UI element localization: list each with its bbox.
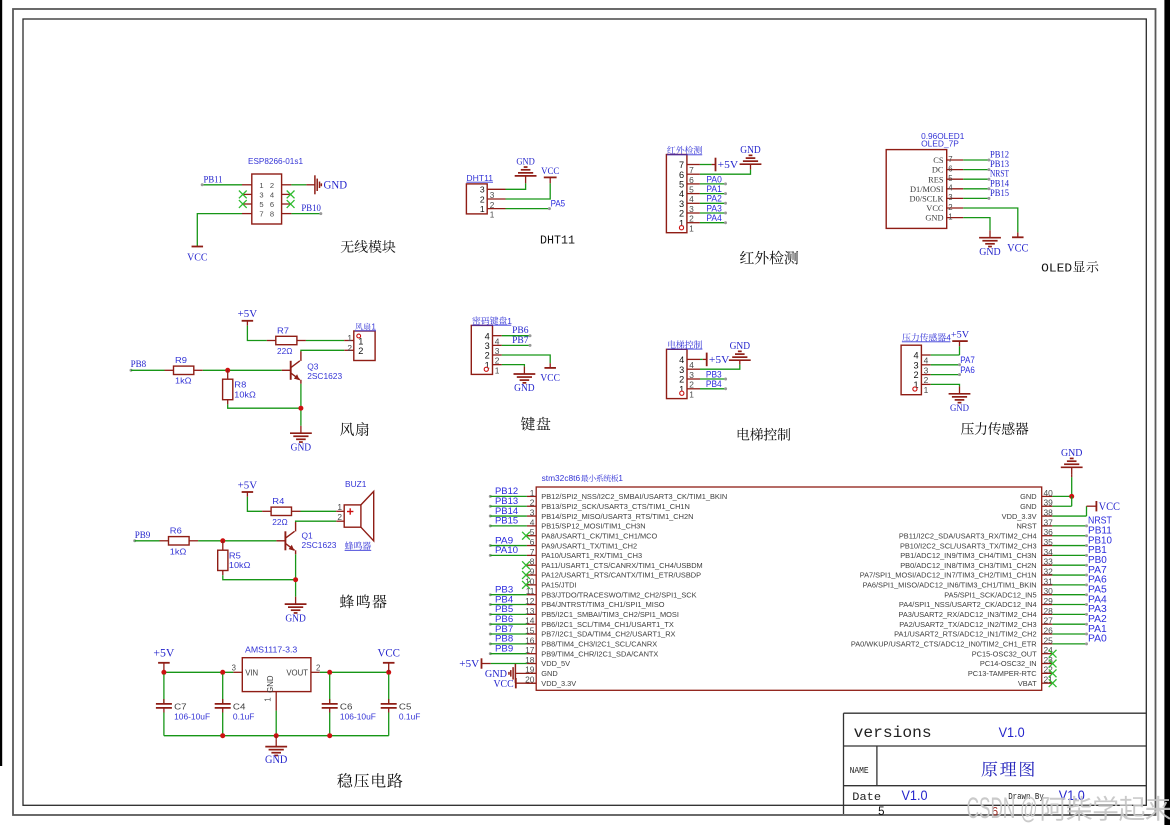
svg-text:R4: R4 xyxy=(272,496,284,506)
power VCC at ESP pin7 xyxy=(187,247,207,264)
wire stm32 pin39 to GND node xyxy=(1052,496,1071,506)
svg-text:GND: GND xyxy=(285,613,306,624)
wire R4 to buzzer pin1 xyxy=(301,510,337,512)
svg-text:GND: GND xyxy=(1061,447,1082,459)
svg-text:8: 8 xyxy=(270,210,274,219)
svg-text:PA12/USART1_RTS/CANTX/TIM1_ETR: PA12/USART1_RTS/CANTX/TIM1_ETR/USBDP xyxy=(541,571,701,580)
label 密码键盘1 blue xyxy=(472,316,512,326)
module title OLED显示 xyxy=(1041,261,1098,275)
svg-text:26: 26 xyxy=(1044,625,1054,635)
no-connect X stm32 pin22 xyxy=(1049,669,1057,677)
wire output rail xyxy=(320,671,389,673)
junction C6 bottom node xyxy=(327,733,332,738)
svg-text:PB8/TIM4_CH3/I2C1_SCL/CANRX: PB8/TIM4_CH3/I2C1_SCL/CANRX xyxy=(541,640,657,649)
svg-text:C6: C6 xyxy=(340,702,353,712)
ground GND at ESP pin2 xyxy=(306,175,347,194)
svg-text:2SC1623: 2SC1623 xyxy=(307,371,342,381)
power VCC stm32 pin38 xyxy=(1096,501,1120,513)
resistor R4 xyxy=(262,507,300,515)
svg-text:V1.0: V1.0 xyxy=(999,725,1025,740)
power VCC at DHT pin2 xyxy=(541,166,559,184)
svg-text:4: 4 xyxy=(485,331,490,341)
svg-text:VDD_3.3V: VDD_3.3V xyxy=(1002,512,1037,521)
svg-text:PB1/ADC12_IN9/TIM3_CH4/TIM1_CH: PB1/ADC12_IN9/TIM3_CH4/TIM1_CH3N xyxy=(900,551,1036,560)
svg-text:GND: GND xyxy=(516,157,535,167)
svg-text:PB9: PB9 xyxy=(135,530,151,541)
svg-text:GND: GND xyxy=(730,341,751,352)
wire stm32 pin40 to GND xyxy=(1052,475,1071,497)
component 密码键盘1 connector body xyxy=(471,325,502,375)
svg-text:2: 2 xyxy=(347,343,352,353)
wire R8 bottom to emitter node xyxy=(228,404,301,408)
wire keyboard pin3 to PB7 xyxy=(502,344,532,347)
wire PB11 to ESP pin1 xyxy=(201,183,242,186)
junction +5V C7 node xyxy=(161,670,166,675)
wire R5 bottom to emitter node xyxy=(223,575,296,580)
svg-text:PC15-OSC32_OUT: PC15-OSC32_OUT xyxy=(972,649,1037,658)
svg-text:OLED_7P: OLED_7P xyxy=(921,139,959,148)
wire infrared pin4 to PA1 xyxy=(700,192,727,195)
net label PA1 xyxy=(1088,624,1107,635)
wire DHT pin2 to VCC xyxy=(506,183,551,199)
wire Q1 emitter down to GND xyxy=(295,550,297,596)
svg-text:GND: GND xyxy=(950,403,969,414)
svg-text:3: 3 xyxy=(924,365,929,375)
svg-text:0.1uF: 0.1uF xyxy=(399,711,421,721)
svg-text:D0/SCLK: D0/SCLK xyxy=(910,195,944,204)
svg-text:GND: GND xyxy=(514,383,535,394)
svg-text:PB0/ADC12_IN8/TIM3_CH3/TIM1_CH: PB0/ADC12_IN8/TIM3_CH3/TIM1_CH2N xyxy=(900,561,1036,570)
wire infrared pin1 to PA4 xyxy=(700,221,727,224)
power +5V fan xyxy=(238,309,258,325)
svg-text:1: 1 xyxy=(689,389,694,399)
net label PB5 xyxy=(495,604,513,615)
net label NRST xyxy=(990,169,1009,180)
capacitor C5 xyxy=(381,674,397,735)
svg-text:RES: RES xyxy=(928,175,944,184)
label value C7 xyxy=(174,702,187,712)
svg-text:PB5/I2C1_SMBAI/TIM3_CH2/SPI1_M: PB5/I2C1_SMBAI/TIM3_CH2/SPI1_MOSI xyxy=(541,610,679,619)
wire stm32 pin33 to PB0 xyxy=(1052,564,1088,567)
svg-text:C7: C7 xyxy=(174,702,187,712)
net label PB6 xyxy=(512,325,529,336)
svg-text:PB9/TIM4_CHR/I2C1_SDA/CANTX: PB9/TIM4_CHR/I2C1_SDA/CANTX xyxy=(541,649,658,658)
resistor R8 xyxy=(223,370,233,404)
wire PB6 to stm32 pin14 xyxy=(489,623,527,626)
module title 键盘 xyxy=(521,417,551,431)
svg-text:1kΩ: 1kΩ xyxy=(175,375,192,385)
wire PB12 to stm32 pin1 xyxy=(489,495,527,498)
svg-text:D1/MOSI: D1/MOSI xyxy=(910,185,944,194)
wire infrared pin6 to GND xyxy=(700,170,751,175)
svg-text:GND: GND xyxy=(265,754,287,766)
no-connect X pin5 xyxy=(239,200,247,208)
net label PB13 xyxy=(495,496,518,507)
svg-text:PA4: PA4 xyxy=(706,213,721,224)
junction C4 top node xyxy=(220,670,225,675)
svg-text:40: 40 xyxy=(1044,488,1054,498)
svg-text:GND: GND xyxy=(324,180,348,192)
svg-text:27: 27 xyxy=(1044,616,1054,626)
wire keyboard pin4 to PB6 xyxy=(502,334,532,337)
svg-text:CSDN @: CSDN @ xyxy=(967,792,1038,825)
ground GND stm32 pin19 xyxy=(485,664,536,683)
module title 稳压电路 xyxy=(337,773,402,788)
svg-text:34: 34 xyxy=(1044,547,1054,557)
power VCC regulator xyxy=(377,648,400,673)
wire stm32 pin32 to PA7 xyxy=(1052,574,1088,577)
svg-text:2: 2 xyxy=(924,375,929,385)
svg-text:32: 32 xyxy=(1044,566,1054,576)
wire infrared pin3 to PA2 xyxy=(700,202,727,205)
module title 压力传感器 xyxy=(961,422,1029,435)
svg-text:2: 2 xyxy=(948,203,952,212)
ground GND at infrared pin6 xyxy=(740,145,762,170)
component 压力传感器4 connector body xyxy=(901,345,931,395)
svg-text:2: 2 xyxy=(485,351,490,361)
net label PB4 xyxy=(495,594,513,605)
capacitor C6 xyxy=(322,674,338,735)
wire keyboard pin1 to GND xyxy=(502,365,525,367)
wire elevator pin4 to +5V xyxy=(700,358,707,360)
ground GND at DHT pin3 xyxy=(515,157,537,183)
svg-text:3: 3 xyxy=(259,191,263,200)
net label PA0 xyxy=(1088,634,1107,645)
resistor R6 xyxy=(160,537,199,545)
wire pressure pin1 to GND xyxy=(931,384,960,386)
junction C4 bottom node xyxy=(220,733,225,738)
buzzer BUZ1 body xyxy=(336,491,374,541)
svg-text:1: 1 xyxy=(263,697,272,701)
no-connect X stm32 pin10 xyxy=(522,581,530,589)
net label PA5 xyxy=(551,199,566,210)
wire GND pin1 down xyxy=(275,711,277,736)
power VCC keyboard xyxy=(540,368,560,384)
svg-text:VBAT: VBAT xyxy=(1018,679,1037,688)
svg-text:+5V: +5V xyxy=(238,480,258,491)
svg-text:7: 7 xyxy=(259,210,263,219)
svg-text:PA15/JTDI: PA15/JTDI xyxy=(541,581,576,590)
svg-text:PB6/I2C1_SCL/TIM4_CH1/USART1_T: PB6/I2C1_SCL/TIM4_CH1/USART1_TX xyxy=(541,620,674,629)
wire fan pin2 to Q3 collector xyxy=(301,350,344,361)
svg-text:1: 1 xyxy=(259,181,263,190)
net label PB7 xyxy=(512,335,529,346)
svg-text:6: 6 xyxy=(948,164,952,173)
net label PA4 xyxy=(1088,594,1107,605)
svg-text:PA0: PA0 xyxy=(1088,634,1107,645)
svg-text:1: 1 xyxy=(490,211,495,220)
label value C4 xyxy=(233,702,246,712)
svg-text:GND: GND xyxy=(266,675,275,693)
svg-text:1: 1 xyxy=(495,365,500,375)
module title 风扇 xyxy=(340,422,369,436)
svg-text:33: 33 xyxy=(1044,557,1054,567)
net label PA4 xyxy=(706,213,721,224)
svg-text:PA4/SPI1_NSS/USART2_CK/ADC12_I: PA4/SPI1_NSS/USART2_CK/ADC12_IN4 xyxy=(899,600,1037,609)
wire pressure pin2 to PA6 xyxy=(931,373,961,376)
label value C5 xyxy=(399,702,412,712)
svg-text:22Ω: 22Ω xyxy=(272,517,287,527)
svg-text:PA5: PA5 xyxy=(551,199,566,210)
svg-text:+5V: +5V xyxy=(718,159,739,171)
svg-text:R7: R7 xyxy=(277,325,289,335)
wire stm32 pin36 to PB11 xyxy=(1052,534,1088,537)
svg-text:C5: C5 xyxy=(399,702,412,712)
title value V1.0 date xyxy=(902,788,928,803)
svg-text:V1.0: V1.0 xyxy=(902,788,928,803)
watermark CSDN @阿柴学起来 xyxy=(967,792,1170,825)
zone divider tick xyxy=(1069,805,1071,814)
net label PB14 xyxy=(495,506,518,517)
net label PA7 xyxy=(960,355,975,366)
svg-text:PA10: PA10 xyxy=(495,545,518,556)
svg-text:25: 25 xyxy=(1044,635,1054,645)
svg-text:PB13/SPI2_SCK/USART3_CTS/TIM1_: PB13/SPI2_SCK/USART3_CTS/TIM1_CH1N xyxy=(541,502,690,511)
no-connect X pin4 xyxy=(287,191,295,199)
net label PA3 xyxy=(1088,604,1107,615)
svg-text:3: 3 xyxy=(913,360,918,370)
resistor R9 xyxy=(165,366,203,374)
svg-text:1: 1 xyxy=(924,385,929,395)
svg-text:VCC: VCC xyxy=(541,166,559,177)
wire pressure pin4 to +5V xyxy=(931,341,960,355)
label stm32c8t6最小系统板1 xyxy=(542,474,624,483)
svg-text:2: 2 xyxy=(913,370,918,380)
svg-text:VDD_5V: VDD_5V xyxy=(541,659,570,668)
svg-text:10kΩ: 10kΩ xyxy=(229,560,251,570)
svg-text:2: 2 xyxy=(679,375,684,385)
svg-text:3: 3 xyxy=(679,365,684,375)
no-connect X pin6 xyxy=(287,200,295,208)
no-connect X stm32 pin23 xyxy=(1049,660,1057,668)
wire OLED pin6 to PB13 xyxy=(963,168,990,171)
svg-text:GND: GND xyxy=(979,246,1000,258)
net label PA2 xyxy=(706,194,721,205)
component DHT11 connector body xyxy=(466,184,505,220)
component 红外检测 connector body xyxy=(666,155,700,234)
svg-text:R8: R8 xyxy=(234,380,246,390)
module title 电梯控制 xyxy=(738,428,791,441)
no-connect X stm32 pin5 xyxy=(522,532,530,540)
net label PA6 xyxy=(1088,575,1107,586)
net label PB12 xyxy=(990,150,1009,161)
junction VCC C5 node xyxy=(386,670,391,675)
svg-text:3: 3 xyxy=(485,341,490,351)
svg-text:PB4/JNTRST/TIM3_CH1/SPI1_MISO: PB4/JNTRST/TIM3_CH1/SPI1_MISO xyxy=(541,600,664,609)
svg-text:PB9: PB9 xyxy=(495,643,513,654)
net label PB10 xyxy=(1088,535,1112,546)
module title 红外检测 xyxy=(740,251,798,265)
wire input rail xyxy=(164,671,234,673)
svg-text:+5V: +5V xyxy=(153,648,175,660)
svg-text:5: 5 xyxy=(948,174,953,183)
svg-text:GND: GND xyxy=(1020,492,1036,501)
wire stm32 pin30 to PA5 xyxy=(1052,593,1088,596)
wire stm32 pin37 to NRST xyxy=(1052,524,1088,527)
wire PA9 to stm32 pin6 xyxy=(489,544,527,547)
power +5V pressure xyxy=(951,330,969,342)
wire infrared pin2 to PA3 xyxy=(700,212,727,215)
title text Drawn By xyxy=(1008,791,1044,802)
svg-text:35: 35 xyxy=(1044,537,1054,547)
svg-text:VOUT: VOUT xyxy=(286,669,308,678)
svg-text:28: 28 xyxy=(1044,606,1054,616)
capacitor C7 xyxy=(156,674,172,735)
svg-text:VIN: VIN xyxy=(245,669,258,678)
wire stm32 pin28 to PA3 xyxy=(1052,613,1088,616)
label 电梯控制 blue xyxy=(667,340,702,349)
svg-text:1: 1 xyxy=(948,212,952,221)
svg-text:VCC: VCC xyxy=(377,648,400,660)
wire PB4 to stm32 pin12 xyxy=(489,603,527,606)
wire OLED pin4 to PB14 xyxy=(963,187,990,190)
net label PA3 xyxy=(706,203,721,214)
module title DHT11 xyxy=(540,234,575,248)
wire +5V to stm32 pin18 xyxy=(491,663,527,665)
net label PA7 xyxy=(1088,565,1107,576)
svg-text:4: 4 xyxy=(913,351,918,361)
capacitor C4 xyxy=(215,674,231,735)
svg-text:Q1: Q1 xyxy=(302,531,314,541)
svg-text:VCC: VCC xyxy=(540,373,560,384)
svg-text:PA0/WKUP/USART2_CTS/ADC12_IN0/: PA0/WKUP/USART2_CTS/ADC12_IN0/TIM2_CH1_E… xyxy=(851,640,1037,649)
svg-text:4: 4 xyxy=(679,355,684,365)
wire stm32 pin31 to PA6 xyxy=(1052,583,1088,586)
svg-text:PB15/SP12_MOSI/TIM1_CH3N: PB15/SP12_MOSI/TIM1_CH3N xyxy=(541,522,645,531)
net label NRST xyxy=(1088,516,1112,527)
svg-text:1: 1 xyxy=(337,502,342,512)
net label PB10 xyxy=(301,203,321,214)
no-connect X pin3 xyxy=(239,191,247,199)
svg-text:BUZ1: BUZ1 xyxy=(345,479,367,489)
net label PB8 xyxy=(131,359,147,370)
svg-text:11: 11 xyxy=(526,586,535,596)
svg-text:1: 1 xyxy=(371,323,376,332)
svg-text:4: 4 xyxy=(530,517,535,527)
svg-text:GND: GND xyxy=(1020,502,1036,511)
net label PB9 xyxy=(495,643,513,654)
svg-text:PB11/I2C2_SDA/USART3_RX/TIM2_C: PB11/I2C2_SDA/USART3_RX/TIM2_CH4 xyxy=(899,531,1037,540)
svg-text:PB7: PB7 xyxy=(512,335,529,346)
wire stm32 pin26 to PA1 xyxy=(1052,633,1088,636)
svg-text:1: 1 xyxy=(347,333,352,343)
wire elevator pin1 to PB4 xyxy=(700,387,727,390)
svg-text:VCC: VCC xyxy=(926,204,944,213)
svg-text:38: 38 xyxy=(1044,507,1054,517)
net label PB1 xyxy=(1088,545,1107,556)
wire stm32 pin34 to PB1 xyxy=(1052,554,1088,557)
net label PA5 xyxy=(1088,585,1107,596)
power +5V buzzer xyxy=(238,480,258,496)
regulator U AMS1117-3.3 body xyxy=(232,658,321,711)
svg-text:3: 3 xyxy=(232,663,236,672)
svg-text:2: 2 xyxy=(316,663,320,672)
svg-text:4: 4 xyxy=(689,360,694,370)
svg-text:+5V: +5V xyxy=(459,658,479,670)
svg-text:+5V: +5V xyxy=(238,309,258,320)
svg-text:GND: GND xyxy=(291,442,312,453)
svg-text:PA2/USART2_TX/ADC12_IN2/TIM2_C: PA2/USART2_TX/ADC12_IN2/TIM2_CH3 xyxy=(899,620,1036,629)
wire stm32 pin29 to PA4 xyxy=(1052,603,1088,606)
svg-text:DC: DC xyxy=(932,166,944,175)
svg-text:4: 4 xyxy=(924,356,929,366)
net label PB0 xyxy=(1088,555,1107,566)
wire bottom rail xyxy=(164,735,389,737)
resistor R7 xyxy=(267,336,306,344)
component 风扇1 connector body xyxy=(344,331,375,361)
wire PB9 to stm32 pin17 xyxy=(489,652,527,655)
svg-text:+5V: +5V xyxy=(709,354,730,366)
svg-text:PB14/SPI2_MISO/USART3_RTS/TIM1: PB14/SPI2_MISO/USART3_RTS/TIM1_CH2N xyxy=(541,512,693,521)
svg-text:10kΩ: 10kΩ xyxy=(234,389,256,399)
net label PB14 xyxy=(990,178,1009,189)
svg-text:1kΩ: 1kΩ xyxy=(170,547,187,557)
ground GND fan xyxy=(290,426,312,454)
svg-text:4: 4 xyxy=(679,189,684,199)
svg-text:29: 29 xyxy=(1044,596,1054,606)
wire OLED pin2 VCC xyxy=(963,208,1018,237)
wire ESP pin8 to PB10 xyxy=(291,212,322,215)
net label PB8 xyxy=(495,634,513,645)
svg-text:VCC: VCC xyxy=(494,678,514,690)
svg-text:0.1uF: 0.1uF xyxy=(233,711,255,721)
svg-text:PA6/SPI1_MISO/ADC12_IN6/TIM3_C: PA6/SPI1_MISO/ADC12_IN6/TIM3_CH1/TIM1_BK… xyxy=(863,581,1037,590)
junction R5 top node xyxy=(220,538,225,543)
svg-text:Date: Date xyxy=(852,792,881,804)
label value C6 xyxy=(340,702,353,712)
svg-text:C4: C4 xyxy=(233,702,246,712)
module title 蜂鸣器 xyxy=(340,595,387,609)
title value V1.0 drawn by xyxy=(1059,788,1085,803)
wire OLED pin7 to PB12 xyxy=(963,159,990,162)
svg-text:6: 6 xyxy=(270,200,274,209)
svg-text:5: 5 xyxy=(679,180,684,190)
svg-text:ESP8266-01s1: ESP8266-01s1 xyxy=(248,157,304,166)
svg-text:+5V: +5V xyxy=(951,330,969,341)
wire PB9 to R6 xyxy=(133,539,159,542)
svg-text:1: 1 xyxy=(480,204,485,214)
wire ESP pin2 to GND xyxy=(291,184,306,186)
svg-text:AMS1117-3.3: AMS1117-3.3 xyxy=(245,644,298,654)
svg-text:5: 5 xyxy=(259,200,263,209)
svg-text:stm32c8t6: stm32c8t6 xyxy=(542,474,581,483)
title text NAME xyxy=(850,765,870,776)
wire PB7 to stm32 pin15 xyxy=(489,633,527,636)
svg-text:106-10uF: 106-10uF xyxy=(340,711,376,721)
transistor Q1 2SC1623 xyxy=(276,531,336,551)
svg-text:4: 4 xyxy=(948,184,953,193)
svg-text:5: 5 xyxy=(530,527,535,537)
svg-text:2: 2 xyxy=(337,512,342,522)
svg-text:PB12/SPI2_NSS/I2C2_SMBAI/USART: PB12/SPI2_NSS/I2C2_SMBAI/USART3_CK/TIM1_… xyxy=(541,492,727,501)
title text Date xyxy=(852,792,881,804)
svg-text:PA3/USART2_RX/ADC12_IN3/TIM2_C: PA3/USART2_RX/ADC12_IN3/TIM2_CH4 xyxy=(898,610,1036,619)
net label PA1 xyxy=(706,184,721,195)
title value V1.0 versions xyxy=(999,725,1025,740)
ground GND regulator xyxy=(265,736,287,766)
sheet border black bar left edge xyxy=(0,0,2,766)
wire elevator pin3 to GND xyxy=(700,365,740,370)
wire stm32 pin27 to PA2 xyxy=(1052,623,1088,626)
svg-text:versions: versions xyxy=(854,724,932,742)
wire ESP pin7 to VCC xyxy=(197,214,242,247)
net label PB11 xyxy=(204,175,223,186)
component 0.96OLED1 OLED_7P body xyxy=(886,150,963,229)
no-connect X stm32 pin8 xyxy=(522,561,530,569)
svg-text:VCC: VCC xyxy=(1007,243,1029,255)
wire stm32 pin25 to PA0 xyxy=(1052,642,1088,645)
label DHT11 blue xyxy=(466,173,493,183)
